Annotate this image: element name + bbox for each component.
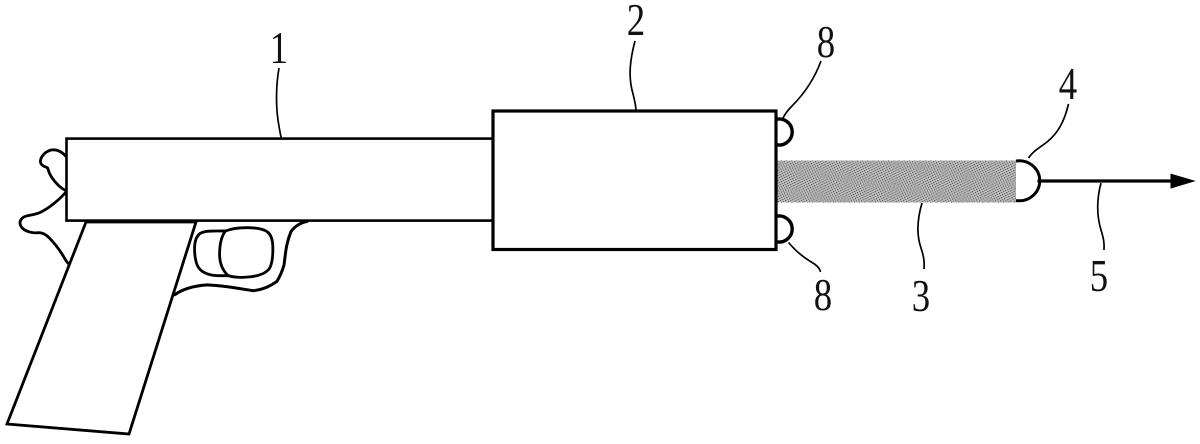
leader line for lower 8	[789, 243, 821, 273]
hammer spur	[40, 150, 66, 191]
trigger-guard bow (left rounded loop)	[195, 231, 232, 276]
svg-text:8: 8	[814, 270, 832, 321]
leader line for upper 8	[783, 61, 821, 118]
svg-text:5: 5	[1090, 251, 1108, 302]
svg-text:2: 2	[627, 0, 645, 46]
leader line for 4	[1029, 104, 1069, 158]
clip 8 (lower retaining clip)	[776, 216, 792, 242]
leader line for 5	[1098, 183, 1105, 250]
device body 2 (rectangular box)	[493, 111, 776, 250]
leader line for 1	[277, 68, 282, 139]
svg-text:4: 4	[1059, 59, 1078, 110]
frame front sweep (trigger-guard outer edge)	[174, 221, 308, 295]
arrow 5 (direction of emission)	[1038, 174, 1195, 188]
beavertail grip safety	[20, 192, 70, 264]
grip (handle)	[7, 222, 196, 434]
tip 4 (rounded cap at rod end)	[1016, 161, 1040, 201]
trigger (right rounded loop)	[220, 228, 273, 278]
leader line for 3	[918, 203, 924, 269]
svg-text:1: 1	[270, 23, 288, 74]
svg-text:3: 3	[912, 271, 930, 322]
svg-text:8: 8	[817, 17, 835, 68]
leader line for 2	[630, 41, 636, 111]
clip 8 (upper retaining clip)	[776, 119, 792, 145]
rod 3 (stippled firing pin shaft)	[776, 161, 1017, 203]
barrel housing 1 (slide rectangle)	[67, 139, 494, 221]
